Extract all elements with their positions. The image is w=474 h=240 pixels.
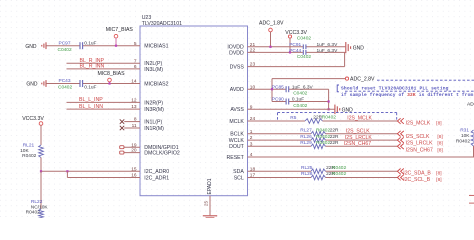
svg-text:C0402: C0402 <box>58 47 72 53</box>
svg-text:RL29: RL29 <box>300 140 312 146</box>
svg-text:PC91: PC91 <box>289 42 301 48</box>
svg-text:C0402: C0402 <box>297 54 311 60</box>
svg-text:R0402: R0402 <box>456 138 470 144</box>
svg-text:PC43: PC43 <box>59 78 71 84</box>
svg-text:C0402: C0402 <box>58 85 72 91</box>
svg-text:1uF_6.3V: 1uF_6.3V <box>317 48 339 54</box>
svg-text:[8]: [8] <box>437 147 442 153</box>
svg-text:PC97: PC97 <box>59 40 71 46</box>
svg-text:EPAD1: EPAD1 <box>207 178 213 194</box>
svg-text:10K: 10K <box>461 133 470 139</box>
svg-text:AVSS: AVSS <box>230 107 244 113</box>
svg-text:IN1L(P): IN1L(P) <box>144 120 162 126</box>
svg-text:R0402: R0402 <box>316 128 330 134</box>
svg-text:GND: GND <box>25 44 37 50</box>
svg-text:RL27: RL27 <box>300 128 312 134</box>
svg-text:R0402: R0402 <box>22 153 36 159</box>
svg-text:ADC_: ADC_ <box>467 101 474 107</box>
svg-text:GND: GND <box>26 82 38 88</box>
svg-text:25: 25 <box>204 201 209 207</box>
svg-text:MIC8_BIAS: MIC8_BIAS <box>98 71 126 77</box>
svg-text:AVDD: AVDD <box>230 87 244 93</box>
svg-text:R0402: R0402 <box>316 140 330 146</box>
svg-text:TLV320ADC3101: TLV320ADC3101 <box>142 21 182 27</box>
svg-text:MCLK: MCLK <box>229 119 244 125</box>
svg-text:RL22: RL22 <box>31 199 43 205</box>
svg-text:22R: 22R <box>330 134 339 140</box>
svg-text:C0402: C0402 <box>293 103 307 109</box>
svg-text:IN3L(M): IN3L(M) <box>144 67 163 73</box>
svg-text:I2C_SDA_B: I2C_SDA_B <box>403 171 431 177</box>
svg-text:ADC_2.8V: ADC_2.8V <box>350 77 375 83</box>
svg-text:I2SN_CH67: I2SN_CH67 <box>344 141 371 147</box>
svg-text:MICBIAS2: MICBIAS2 <box>144 81 168 87</box>
svg-text:DOUT: DOUT <box>229 144 245 150</box>
svg-text:22R: 22R <box>330 128 339 134</box>
svg-text:R0402: R0402 <box>322 115 336 121</box>
svg-text:IN3R(M): IN3R(M) <box>144 107 164 113</box>
svg-text:I2S_SCLK: I2S_SCLK <box>346 128 370 134</box>
svg-text:R0402: R0402 <box>316 134 330 140</box>
svg-text:MICBIAS1: MICBIAS1 <box>144 44 168 50</box>
svg-text:BL_L_INP: BL_L_INP <box>79 97 103 103</box>
svg-text:I2C_SCL_B: I2C_SCL_B <box>403 177 431 183</box>
svg-text:PC90: PC90 <box>272 97 284 103</box>
svg-text:22R: 22R <box>330 140 339 146</box>
svg-text:SCL: SCL <box>234 175 244 181</box>
svg-text:IN2R(P): IN2R(P) <box>144 100 163 106</box>
svg-text:R5: R5 <box>290 115 296 121</box>
svg-text:I2C_ADR1: I2C_ADR1 <box>144 175 169 181</box>
svg-text:0.1uF: 0.1uF <box>292 97 304 103</box>
svg-text:RL28: RL28 <box>301 171 313 177</box>
svg-text:RL26: RL26 <box>300 134 312 140</box>
svg-text:MIC7_BIAS: MIC7_BIAS <box>106 27 134 33</box>
svg-text:C0402: C0402 <box>293 91 307 97</box>
svg-text:GND: GND <box>353 46 365 52</box>
svg-text:R0402: R0402 <box>332 165 346 171</box>
svg-text:RL21: RL21 <box>23 143 35 149</box>
svg-text:1uF_6.3V: 1uF_6.3V <box>292 84 314 90</box>
svg-text:1uF_6.3V: 1uF_6.3V <box>317 42 339 48</box>
svg-text:I2S_LRCLK: I2S_LRCLK <box>406 141 434 147</box>
svg-text:if sample frequency of 32K is: if sample frequency of 32K is different … <box>341 92 473 98</box>
svg-text:I2SN_CH67: I2SN_CH67 <box>406 147 433 153</box>
svg-text:[8]: [8] <box>436 171 441 177</box>
svg-text:[8]: [8] <box>437 134 442 140</box>
svg-text:RL25: RL25 <box>301 165 313 171</box>
svg-text:I2S_MCLK: I2S_MCLK <box>406 120 431 126</box>
svg-text:[8]: [8] <box>436 120 441 126</box>
svg-text:R0402: R0402 <box>26 209 40 215</box>
svg-text:0.1uF: 0.1uF <box>84 85 96 91</box>
svg-text:I2S_MCLK: I2S_MCLK <box>347 116 372 122</box>
svg-text:R0402: R0402 <box>332 171 346 177</box>
svg-text:R31: R31 <box>460 127 469 133</box>
svg-text:BL_R_INN: BL_R_INN <box>80 64 105 70</box>
svg-text:BL_L_INN: BL_L_INN <box>79 104 103 110</box>
svg-text:DMCLK/GPIO2: DMCLK/GPIO2 <box>144 151 180 157</box>
svg-text:0.1uF: 0.1uF <box>84 41 96 47</box>
svg-text:I2C_ADR0: I2C_ADR0 <box>144 169 169 175</box>
svg-text:Should reset TLV320ADC3101 PLL: Should reset TLV320ADC3101 PLL seting <box>341 85 449 91</box>
svg-text:BCLK: BCLK <box>230 132 244 138</box>
svg-text:I2S_LRCLK: I2S_LRCLK <box>345 135 373 141</box>
svg-text:PC85: PC85 <box>272 84 284 90</box>
svg-text:RESET: RESET <box>227 155 245 161</box>
svg-text:PC44: PC44 <box>289 48 301 54</box>
svg-text:WCLK: WCLK <box>229 138 245 144</box>
svg-text:DVDD: DVDD <box>229 50 244 56</box>
svg-text:I2S_SCLK: I2S_SCLK <box>406 134 430 140</box>
svg-text:[8]: [8] <box>436 177 441 183</box>
svg-text:C0402: C0402 <box>297 36 311 42</box>
svg-text:SDA: SDA <box>233 169 244 175</box>
svg-text:ADC_1.8V: ADC_1.8V <box>259 21 284 27</box>
svg-text:DVSS: DVSS <box>230 65 245 71</box>
svg-text:[8]: [8] <box>437 141 442 147</box>
svg-text:IN1R(M): IN1R(M) <box>144 126 164 132</box>
